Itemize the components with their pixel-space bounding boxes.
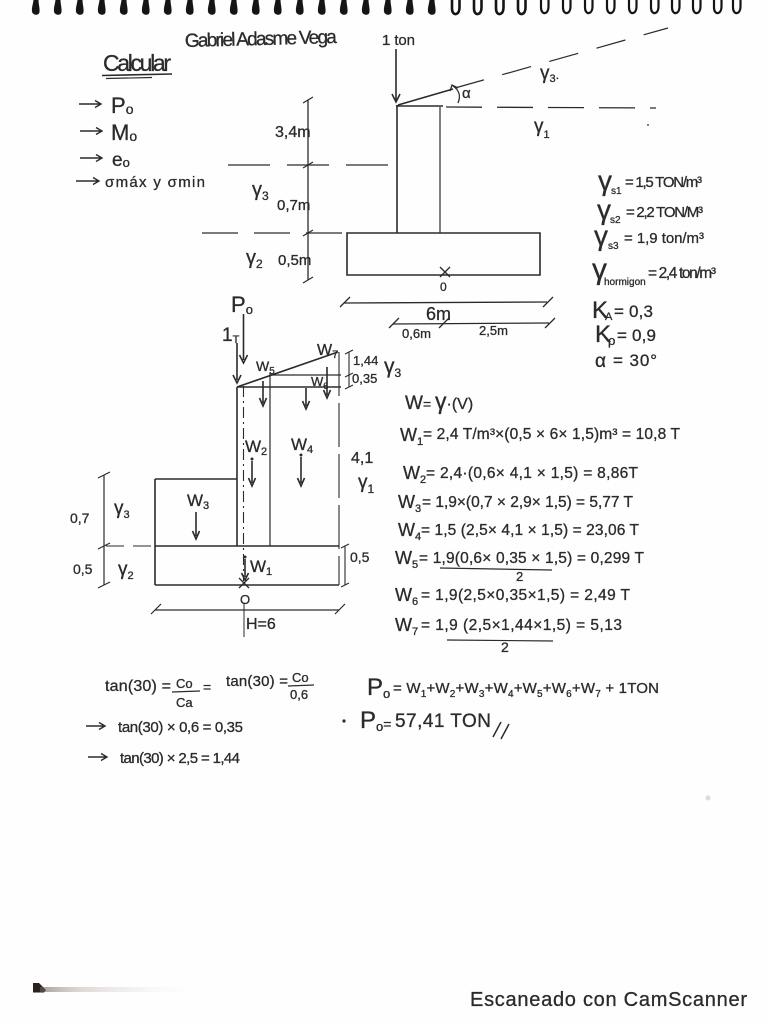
svg-text:1,44: 1,44	[353, 353, 378, 368]
X origin mark 2	[239, 578, 249, 588]
svg-text:γ2: γ2	[118, 559, 134, 582]
svg-text:tan(30) × 2,5 = 1,44: tan(30) × 2,5 = 1,44	[120, 750, 240, 767]
W equations	[395, 388, 681, 655]
svg-text:α: α	[462, 85, 471, 102]
dim 0,5 right	[344, 546, 346, 585]
svg-text:0,5: 0,5	[73, 561, 93, 577]
toe soil rectangle top	[155, 478, 237, 480]
svg-text:0,5: 0,5	[350, 549, 370, 565]
faint smudge	[706, 796, 711, 801]
svg-text:= 1,9(0,6× 0,35 × 1,5) = 0,299: = 1,9(0,6× 0,35 × 1,5) = 0,299 T	[419, 550, 645, 567]
alpha angle arc	[450, 85, 459, 103]
svg-text:Co: Co	[176, 676, 193, 691]
svg-text:tan(30) × 0,6 = 0,35: tan(30) × 0,6 = 0,35	[118, 719, 243, 736]
toe soil left edge	[154, 479, 156, 546]
svg-text:α: α	[595, 351, 606, 372]
svg-text:W5: W5	[256, 358, 275, 377]
svg-text:γ3: γ3	[252, 179, 269, 203]
X origin mark	[440, 267, 450, 277]
right dim bracket 1,44 0,35	[348, 352, 350, 387]
svg-text:0,6m: 0,6m	[402, 326, 431, 341]
svg-text:2,5m: 2,5m	[479, 323, 508, 338]
svg-text:3,4m: 3,4m	[275, 124, 311, 141]
svg-text:= 2,2 TON/M³: = 2,2 TON/M³	[626, 204, 703, 221]
svg-text:W2: W2	[245, 437, 267, 458]
svg-text:= 2,4 ton/m³: = 2,4 ton/m³	[648, 265, 716, 282]
svg-text:= 1,9 (2,5×1,44×1,5) = 5,13: = 1,9 (2,5×1,44×1,5) = 5,13	[421, 617, 622, 634]
svg-text:s1: s1	[611, 186, 622, 197]
svg-text:γ1: γ1	[358, 472, 375, 496]
arrow Mo	[80, 128, 102, 135]
svg-text:W= γ·(V): W= γ·(V)	[405, 388, 473, 414]
svg-text:Po: Po	[111, 93, 134, 118]
soil right boundary	[338, 352, 340, 585]
svg-text:W3: W3	[187, 491, 209, 512]
diagram 1	[202, 28, 668, 294]
stem right edge	[269, 373, 271, 546]
svg-text:Po: Po	[231, 292, 253, 317]
svg-text:= 0,3: = 0,3	[614, 302, 653, 321]
svg-text:= 1,9(2,5×0,35×1,5) = 2,49 T: = 1,9(2,5×0,35×1,5) = 2,49 T	[421, 587, 631, 604]
dimension vertical line	[307, 100, 309, 280]
Po arrow	[240, 314, 248, 363]
diagram 2	[70, 292, 402, 637]
svg-text:= 1,9×(0,7 × 2,9× 1,5) = 5,77: = 1,9×(0,7 × 2,9× 1,5) = 5,77 T	[422, 494, 634, 511]
svg-text:=: =	[203, 679, 211, 695]
stem left edge	[236, 387, 238, 546]
arrow tan(30)x2,5	[88, 754, 107, 761]
dashed layer line low	[202, 232, 345, 234]
svg-text:6m: 6m	[426, 304, 451, 324]
svg-text:γ: γ	[598, 165, 612, 196]
svg-text:Po=: Po=	[360, 707, 391, 734]
svg-text:Escaneado con CamScanner: Escaneado con CamScanner	[470, 989, 747, 1011]
svg-text:γ1: γ1	[534, 116, 550, 141]
svg-text:tan(30) =: tan(30) =	[105, 678, 171, 695]
footing rectangle	[347, 233, 540, 275]
svg-text:2: 2	[516, 569, 523, 584]
header	[76, 27, 338, 191]
backfill slope dashed	[455, 28, 668, 88]
svg-text:= 1,9 ton/m³: = 1,9 ton/m³	[624, 230, 704, 247]
svg-text:= 1,5 TON/m³: = 1,5 TON/m³	[625, 174, 702, 191]
footer	[33, 796, 747, 1012]
stem axis dash-dot	[243, 386, 245, 581]
svg-text:W6: W6	[311, 374, 328, 391]
arrow eo	[80, 155, 102, 162]
1 ton load arrow	[392, 49, 400, 102]
svg-text:W3: W3	[398, 492, 421, 515]
1T arrow	[233, 343, 241, 383]
left dim bracket	[103, 475, 105, 585]
svg-text:0: 0	[440, 280, 447, 294]
svg-text:= 2,4 T/m³×(0,5 × 6× 1,5)m³ =: = 2,4 T/m³×(0,5 × 6× 1,5)m³ = 10,8 T	[423, 426, 681, 443]
dashed line left of footing	[106, 545, 152, 547]
svg-text:γ3: γ3	[384, 355, 402, 380]
svg-text:s3: s3	[608, 241, 619, 252]
svg-text:0,7m: 0,7m	[277, 197, 310, 214]
stray dot	[647, 124, 649, 126]
svg-text:= 30°: = 30°	[613, 351, 657, 370]
backfill slope line	[237, 352, 338, 387]
svg-text:W6: W6	[395, 585, 418, 608]
0,35 level line	[271, 374, 341, 376]
right values column	[592, 165, 716, 372]
svg-text:Po: Po	[367, 674, 390, 701]
bottom equations	[86, 670, 659, 767]
svg-text:tan(30) =: tan(30) =	[226, 673, 288, 690]
6m line	[344, 302, 547, 303]
svg-text:γ: γ	[594, 220, 608, 251]
spiral binding marks	[32, 0, 741, 15]
svg-text:= 1,5 (2,5× 4,1 × 1,5) = 23,06: = 1,5 (2,5× 4,1 × 1,5) = 23,06 T	[421, 522, 640, 539]
svg-text:s2: s2	[610, 215, 621, 226]
dashed layer line mid	[228, 164, 397, 166]
wall stem	[396, 105, 398, 233]
svg-text:γ3.: γ3.	[540, 63, 559, 85]
svg-text:W1: W1	[400, 425, 423, 448]
svg-text:Calcular: Calcular	[103, 50, 171, 76]
arrow tan(30)x0,6	[86, 723, 105, 730]
svg-text:1 ton: 1 ton	[382, 32, 415, 49]
svg-text:H=6: H=6	[246, 616, 276, 633]
svg-text:Co: Co	[292, 670, 309, 685]
top ground dashed line	[446, 107, 656, 108]
arrow Po	[79, 101, 101, 108]
svg-text:0,5m: 0,5m	[278, 252, 311, 269]
svg-text:Mo: Mo	[111, 120, 137, 145]
svg-text:σmáx y σmin: σmáx y σmin	[105, 174, 205, 191]
svg-text:W5: W5	[395, 548, 418, 571]
arrow sigma max y sigma min	[76, 178, 99, 185]
svg-text:W7: W7	[317, 342, 338, 361]
svg-text:W4: W4	[398, 520, 421, 543]
svg-text:4,1: 4,1	[351, 450, 373, 467]
svg-text:2: 2	[501, 639, 509, 655]
svg-text:0,6: 0,6	[290, 687, 308, 702]
svg-text:0,7: 0,7	[70, 510, 90, 526]
Po result	[342, 719, 345, 722]
svg-text:W2: W2	[403, 463, 426, 486]
backfill slope solid part	[398, 89, 453, 105]
0,6m / 2,5m line	[393, 323, 549, 324]
svg-text:γ3: γ3	[114, 498, 130, 521]
svg-text:γ2: γ2	[246, 247, 263, 271]
svg-text:W1: W1	[250, 557, 272, 578]
svg-text:O: O	[240, 592, 250, 607]
svg-text:0,35: 0,35	[352, 371, 377, 386]
svg-text:= 2,4·(0,6× 4,1 × 1,5) = 8,86T: = 2,4·(0,6× 4,1 × 1,5) = 8,86T	[426, 465, 639, 482]
svg-text:hormigon: hormigon	[604, 277, 646, 288]
footing outline	[155, 546, 339, 585]
svg-text:57,41 TON: 57,41 TON	[395, 711, 491, 732]
svg-text:Gabriel Adasme Vega: Gabriel Adasme Vega	[185, 27, 338, 52]
svg-text:W4: W4	[291, 435, 313, 456]
svg-text:eo: eo	[112, 150, 130, 171]
6m dimension	[340, 297, 555, 341]
svg-text:= W1+W2+W3+W4+W5+W6+W7 + 1TON: = W1+W2+W3+W4+W5+W6+W7 + 1TON	[393, 680, 659, 700]
svg-text:ρ: ρ	[608, 333, 615, 348]
svg-text:1T: 1T	[222, 325, 240, 346]
svg-text:Ca: Ca	[176, 695, 193, 710]
svg-text:W7: W7	[395, 615, 418, 638]
svg-text:= 0,9: = 0,9	[617, 326, 656, 345]
wall top edge	[237, 386, 341, 388]
H=6 dimension	[155, 609, 339, 611]
